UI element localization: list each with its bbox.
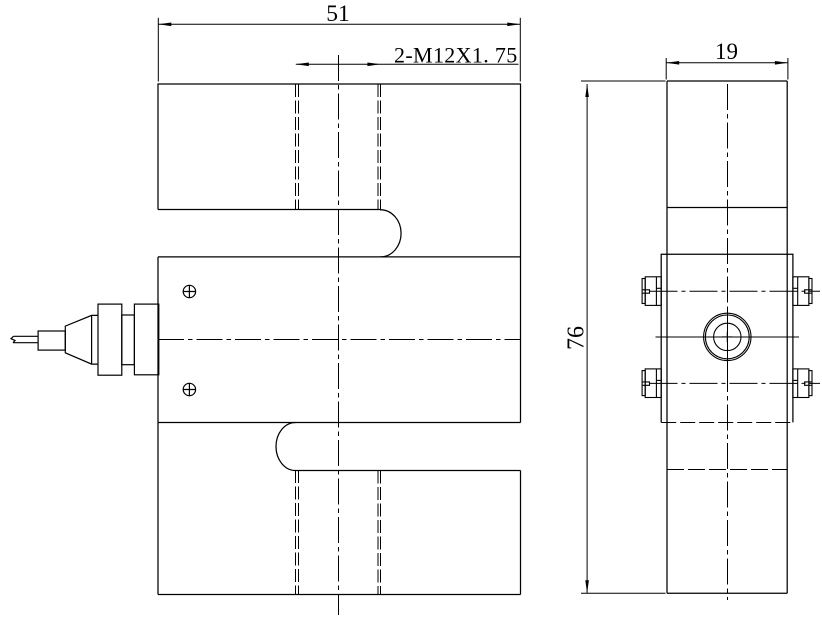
screw row centerline upper: [650, 290, 821, 292]
side plate outline: [661, 254, 793, 422]
strain relief cone: [65, 315, 98, 364]
screw row centerline lower: [650, 382, 821, 384]
screw position crosshair lower: [183, 383, 196, 396]
side plate bottom hidden edge: [661, 422, 793, 424]
cable break symbol: [11, 336, 15, 342]
dimension 19: [666, 58, 788, 80]
vertical centerline left view: [338, 55, 340, 615]
dimension 51: dimension line with arrows: [158, 18, 520, 82]
dimension 76: [581, 81, 666, 593]
arrowheads for 51: [158, 23, 171, 27]
svg-text:19: 19: [715, 39, 738, 64]
svg-text:76: 76: [564, 326, 590, 350]
extension line left: [157, 18, 159, 82]
left edge middle+bottom blocks: [157, 257, 159, 595]
extension line bottom: [581, 592, 666, 594]
hidden slot line: [667, 469, 787, 471]
connector collar at body: [134, 304, 158, 375]
right edge lower block: [520, 471, 522, 595]
cable sleeve: [38, 331, 65, 350]
hidden thread lines, upper tapped hole: [296, 84, 381, 211]
top block parting line: [667, 207, 787, 209]
extension line top: [581, 80, 666, 82]
top block bottom edge: [158, 209, 381, 211]
dimension 2-M12X1.75: line with arrows and text underline: [296, 63, 519, 65]
cable lines: [13, 336, 38, 342]
hidden thread lines, lower tapped hole: [296, 470, 381, 595]
extension line right: [519, 18, 521, 82]
svg-text:51: 51: [326, 1, 350, 27]
middle block bottom edge: [158, 422, 521, 424]
screw clip top-left: [642, 277, 661, 306]
lower slot rounded end arc: [276, 423, 296, 471]
bottom block top edge: [296, 470, 521, 472]
column outline: [667, 80, 787, 82]
screw clip bottom-left: [642, 369, 661, 398]
screw position crosshair upper: [183, 285, 196, 298]
screw clip top-right: [793, 277, 812, 306]
horizontal centerline left view: [158, 339, 521, 341]
connector groove ring: [122, 315, 135, 365]
connector nut body: [98, 304, 122, 375]
vertical centerline right view: [727, 84, 729, 308]
middle block top edge: [158, 256, 521, 258]
horizontal center line through connector: [656, 336, 800, 338]
bottom edge: [158, 594, 521, 596]
center cross: [722, 332, 732, 342]
svg-text:2-M12X1. 75: 2-M12X1. 75: [394, 42, 518, 67]
top block outline: [158, 84, 521, 423]
cable connector assembly on left side: [11, 304, 159, 375]
screw clip bottom-right: [793, 369, 812, 398]
connector boss circles: [704, 313, 751, 360]
cone/cylinder junction line: [91, 315, 93, 364]
upper slot rounded end arc: [381, 210, 402, 257]
